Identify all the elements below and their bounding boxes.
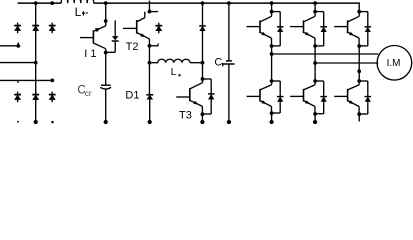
wire upper diode to midpoint leg3 [359, 32, 368, 46]
node remnant leg1 bottom [17, 121, 19, 123]
diode upper leg2 (antiparallel) [320, 27, 327, 32]
label L [171, 66, 181, 78]
label D1 [125, 90, 139, 102]
node leg2 lower collector junction [313, 79, 317, 83]
diode rectifier upper leg2 [32, 23, 39, 34]
diode lower leg2 (antiparallel) [320, 97, 327, 102]
motor I.M [377, 46, 412, 81]
node T2 emitter junction [148, 44, 152, 48]
wire rectifier leg 2 vertical [35, 3, 37, 122]
wire T3 emitter to bottom bus [201, 114, 203, 122]
node bus-Cf junction [227, 1, 231, 5]
node bus-I1 junction [104, 1, 108, 5]
wire leg2 top diode jog [315, 12, 324, 27]
node leg3 top diode jog junction [357, 10, 361, 14]
wire lower diode to emitter leg2 [315, 101, 324, 113]
wire leg1 top diode jog [272, 12, 281, 27]
wire L tee to T3 collector node [202, 63, 204, 79]
transistor T2 [123, 12, 149, 46]
label I1 [84, 48, 96, 60]
transistor T3 [176, 79, 202, 114]
node leg3 phase tap junction [357, 69, 361, 73]
node leg1 upper-diode rejoin junction [270, 44, 274, 48]
wire leg3 bottom diode jog [359, 81, 368, 96]
wire upper diode to midpoint leg1 [272, 32, 281, 46]
wire phase A input [0, 42, 20, 47]
wire T2 diode jog bottom [149, 44, 158, 46]
wire T3 diode jog bottom [202, 99, 211, 114]
diode rectifier upper leg3 [49, 23, 56, 34]
wire leg3 midpoint to lower [358, 71, 360, 81]
node leg1 lower collector junction [270, 79, 274, 83]
diode lower leg1 (antiparallel) [277, 97, 284, 102]
label Ccr [77, 84, 92, 98]
node bus junction leg1 [270, 1, 274, 5]
node leg3 lower-diode rejoin junction [357, 112, 361, 116]
wire leg1 bottom diode jog [272, 81, 281, 96]
diode D-I1 (antiparallel, pointing down) [106, 20, 119, 52]
wire leg3 top diode jog [359, 12, 368, 27]
wire stub above bus at T2 [148, 1, 150, 4]
wire leg2 bottom diode jog [315, 81, 324, 96]
svg-text:L: L [75, 5, 82, 19]
diode D-T2 (antiparallel of T2, link lines faded) [155, 23, 162, 34]
node leg2 upper-diode rejoin junction [313, 44, 317, 48]
wire L tee down to D1 [148, 63, 150, 94]
label T3 [179, 110, 192, 122]
wire bus drop leg1 [271, 3, 273, 12]
svg-text:D1: D1 [125, 90, 139, 102]
label Cf [214, 57, 222, 69]
diode upper leg1 (antiparallel) [277, 27, 284, 32]
node Cf bottom junction [227, 120, 231, 124]
wire phase output leg1 [272, 53, 379, 55]
wire leg1 emitter to bottom bus [271, 113, 273, 122]
wire stub below phase C at leg1 [17, 81, 19, 83]
node D1 bottom junction [148, 120, 152, 124]
wire leg3 emitter tail [358, 114, 360, 122]
wire bus to T2 collector node [148, 3, 150, 12]
node L right junction [201, 61, 205, 65]
node T3 bottom junction [200, 120, 204, 124]
node Ccr bottom junction [104, 120, 108, 124]
diode upper leg3 (antiparallel) [365, 27, 372, 32]
label Lf [75, 5, 88, 19]
svg-text:I 1: I 1 [84, 48, 96, 60]
node leg2 bottom junction [313, 120, 317, 124]
wire leg3 midpoint [358, 46, 360, 71]
node remnant leg3 bottom [51, 121, 53, 123]
diode lower leg3 (antiparallel) [365, 97, 372, 102]
node bus junction leg2 [313, 1, 317, 5]
wire T3 diode jog top [203, 79, 212, 94]
label T2 [126, 41, 139, 53]
wire bus drop leg2 [314, 3, 316, 12]
wire D1 to bottom bus [149, 99, 151, 122]
node phase C junction [50, 79, 54, 83]
node leg2 lower-diode rejoin junction [313, 112, 317, 116]
wire leg1 midpoint to lower [271, 54, 273, 81]
node bus-leg2 junction [34, 1, 38, 5]
wire T3 column from bus [202, 3, 204, 63]
node bus-T3column junction [201, 1, 205, 5]
wire top DC bus (right segment) [94, 2, 360, 4]
wire leg2 emitter to bottom bus [314, 114, 316, 123]
wire Ccr to bottom bus [105, 90, 107, 123]
wire leg2 midpoint [314, 46, 316, 63]
wire T2 emitter down to L tee [148, 46, 150, 63]
wire upper diode to midpoint leg2 [315, 32, 324, 46]
svg-text:C: C [214, 57, 222, 69]
transistor lower leg2 [290, 81, 315, 114]
svg-text:T2: T2 [126, 41, 139, 53]
transistor upper leg2 [290, 12, 315, 46]
node leg1 phase tap junction [270, 52, 274, 56]
svg-text:L: L [171, 66, 177, 78]
node T2 collector junction [148, 10, 152, 14]
wire phase B input [0, 62, 36, 64]
node phase B junction [34, 61, 38, 65]
node leg2 phase tap junction [313, 61, 317, 65]
transistor I1 [80, 21, 106, 53]
transistor upper leg1 [247, 12, 272, 46]
wire lower diode to emitter leg1 [272, 101, 281, 113]
wire phase output leg2 [315, 62, 378, 64]
node L tee junction [148, 61, 152, 65]
inductor L [151, 59, 202, 62]
transistor lower leg1 [247, 81, 272, 113]
node T3 emitter junction [201, 112, 205, 116]
node I1 top junction [104, 19, 108, 23]
node rectifier leg 2 bottom junction [34, 120, 38, 124]
node leg1 bottom junction [270, 120, 274, 124]
wire bus drop leg3 [358, 3, 360, 12]
transistor lower leg3 [334, 81, 359, 114]
diode rectifier lower leg1 [14, 92, 21, 103]
diode D1 [146, 95, 153, 100]
wire lower diode to emitter leg3 [359, 101, 368, 114]
node T3 collector junction [201, 77, 205, 81]
diode rectifier lower leg3 [49, 92, 56, 103]
svg-text:I.M: I.M [387, 58, 401, 69]
node bus-leg3 junction [50, 1, 54, 5]
wire Cf top lead [228, 3, 230, 60]
diode D-T3 (antiparallel of T3) [208, 94, 215, 100]
capacitor Ccr [100, 85, 111, 89]
wire bus corner into leg3 [358, 2, 360, 3]
transistor upper leg3 [334, 12, 359, 46]
diode D-L (small diode on T3 column) [199, 26, 206, 31]
node leg1 top diode jog junction [270, 10, 274, 14]
node leg2 top diode jog junction [313, 10, 317, 14]
diode rectifier upper leg1 [14, 23, 21, 34]
wire top DC bus (left segment) [18, 2, 62, 4]
wire leg2 midpoint to lower [314, 63, 316, 81]
node leg3 upper-diode rejoin junction [357, 44, 361, 48]
capacitor Cf [223, 61, 234, 64]
diode rectifier lower leg2 [32, 92, 39, 103]
inductor Lf (top, cut off by image edge) [61, 0, 93, 3]
wire leg1 midpoint [271, 46, 273, 54]
node I1 bottom junction [104, 51, 108, 55]
wire T2 diode jog top [149, 10, 157, 13]
wire I1 emitter to Ccr [105, 53, 107, 85]
svg-text:T3: T3 [179, 110, 192, 122]
svg-text:cr: cr [85, 89, 92, 98]
node leg1 lower-diode rejoin junction [270, 111, 274, 115]
wire Cf bottom lead [228, 64, 230, 122]
node leg3 lower collector junction [357, 79, 361, 83]
wire phase C input [0, 79, 52, 81]
wire I1 collector from bus [105, 3, 107, 21]
